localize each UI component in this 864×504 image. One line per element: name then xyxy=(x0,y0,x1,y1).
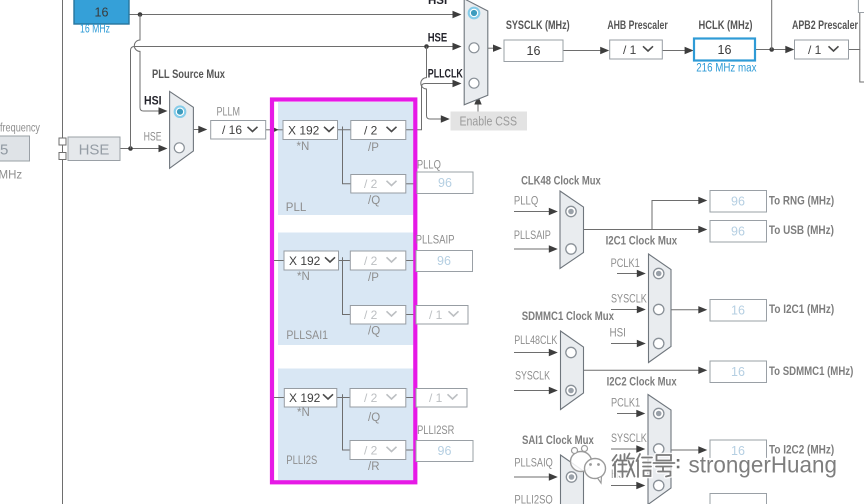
label *N PLLSAI1 xyxy=(297,271,310,283)
svg-text:PLLI2S: PLLI2S xyxy=(286,455,317,467)
svg-text:PCLK1: PCLK1 xyxy=(611,258,640,270)
label HSE at PLL mux xyxy=(144,132,162,144)
label *N PLLI2S xyxy=(297,407,310,419)
value box To SAI1 partial xyxy=(710,494,767,504)
svg-text:16: 16 xyxy=(527,44,541,58)
label PLLSAIP input xyxy=(514,230,551,242)
svg-text:PLLSAIP: PLLSAIP xyxy=(514,230,551,242)
watermark char wei xyxy=(613,454,635,478)
svg-text:96: 96 xyxy=(437,254,451,268)
svg-text:MHz: MHz xyxy=(0,170,22,182)
value box PLLI2SR 96 xyxy=(416,441,473,462)
label AHB Prescaler xyxy=(607,20,668,32)
svg-text:PLLM: PLLM xyxy=(217,107,241,119)
wire SYSCLK into SDMMC1 mux xyxy=(514,387,558,394)
label PLLQ input xyxy=(514,196,538,208)
wire PCLK1 into I2C2 mux xyxy=(617,410,645,417)
svg-text:I2C1 Clock Mux: I2C1 Clock Mux xyxy=(606,236,678,248)
wire I2C2 out to box xyxy=(671,446,707,453)
wire HSE up and right to system mux xyxy=(131,43,462,149)
wire PLLSAI1 /Q out to divider xyxy=(406,314,416,316)
svg-text:APB2 Prescaler: APB2 Prescaler xyxy=(792,20,858,32)
divider PLL /Q dropdown disabled xyxy=(351,175,406,194)
svg-text:SYSCLK: SYSCLK xyxy=(611,433,647,445)
wire HCLK to APB2 with node xyxy=(755,0,794,53)
wire PLLSAI1 /P out to PLLSAIP box xyxy=(406,260,416,262)
label To RNG (MHz) xyxy=(769,196,834,208)
svg-text:96: 96 xyxy=(438,444,452,458)
wire PCLK1 into I2C1 mux xyxy=(617,270,646,277)
svg-text:X 192: X 192 xyxy=(289,254,321,268)
svg-text:AHB Prescaler: AHB Prescaler xyxy=(607,20,668,32)
svg-text:16: 16 xyxy=(731,304,745,318)
svg-text:PLLQ: PLLQ xyxy=(514,196,538,208)
mux SAI1 Clock Mux xyxy=(561,455,584,504)
label MHz xyxy=(0,170,22,182)
label /Q PLL xyxy=(368,195,380,207)
svg-text:strongerHuang: strongerHuang xyxy=(689,452,838,478)
wire I2C1 out to box xyxy=(671,306,707,313)
svg-text:/ 1: / 1 xyxy=(808,43,822,57)
label /P PLL xyxy=(368,142,379,154)
svg-text:/Q: /Q xyxy=(368,195,380,207)
svg-text:/ 2: / 2 xyxy=(364,308,378,322)
wire PLLQ into CLK48 mux xyxy=(514,208,558,215)
value box To RNG 96 xyxy=(710,191,767,213)
mux I2C2 Clock Mux xyxy=(648,395,671,504)
wire PLL /Q out to PLLQ box xyxy=(406,183,417,185)
svg-text:16: 16 xyxy=(95,6,109,20)
label /P PLLSAI1 xyxy=(368,272,379,284)
svg-text:PLL48CLK: PLL48CLK xyxy=(514,335,557,347)
svg-text:I2C2 Clock Mux: I2C2 Clock Mux xyxy=(607,377,677,389)
label SYSCLK (MHz) xyxy=(506,20,570,32)
label frequency xyxy=(0,123,40,135)
left rail wire xyxy=(62,0,64,504)
svg-text:16: 16 xyxy=(718,43,732,57)
label PCLK1 input I2C2 xyxy=(611,398,640,410)
wire HSI into I2C1 mux xyxy=(611,340,646,347)
svg-text:96: 96 xyxy=(731,195,745,209)
svg-text:HSE: HSE xyxy=(79,142,110,159)
svg-text:96: 96 xyxy=(731,225,745,239)
svg-text:/P: /P xyxy=(368,142,379,154)
label SAI1 Clock Mux xyxy=(522,435,594,447)
label PLLSAIQ input xyxy=(514,458,552,470)
label 216 MHz max xyxy=(696,63,757,75)
label PCLK1 input I2C1 xyxy=(611,258,640,270)
divider PLLI2S /R dropdown disabled xyxy=(350,441,406,460)
multiplier PLLI2S xN dropdown X192 xyxy=(284,389,337,408)
label PLLI2S xyxy=(286,455,317,467)
button Enable CSS xyxy=(451,112,528,131)
HSE pin square top xyxy=(59,138,66,145)
PLL block panel xyxy=(278,102,413,215)
HSE pin square bottom xyxy=(59,153,66,160)
divider PLLM dropdown /16 xyxy=(211,121,266,140)
wire PLL source mux out to PLLM xyxy=(193,126,207,133)
svg-text:96: 96 xyxy=(438,176,452,190)
label CLK48 Clock Mux xyxy=(521,176,601,188)
value box SYSCLK 16 xyxy=(504,40,563,62)
label PLLM xyxy=(217,107,241,119)
label APB2 Prescaler xyxy=(792,20,858,32)
divider PLLSAI1 /P dropdown disabled xyxy=(350,251,406,270)
label HCLK (MHz) xyxy=(699,20,753,32)
node HSE branch xyxy=(128,146,133,151)
label SYSCLK input I2C1 xyxy=(611,294,647,306)
wire HSI to system mux xyxy=(129,11,462,18)
svg-text:PLLSAIQ: PLLSAIQ xyxy=(514,458,552,470)
PLLI2S block panel xyxy=(278,369,413,481)
svg-text:216 MHz max: 216 MHz max xyxy=(696,63,757,75)
label To I2C2 (MHz) xyxy=(769,445,834,457)
svg-text:To I2C1 (MHz): To I2C1 (MHz) xyxy=(769,304,834,316)
label PLLCLK xyxy=(428,69,464,81)
wire HSI down to PLL mux with hop xyxy=(134,15,167,115)
svg-text:/ 2: / 2 xyxy=(364,254,378,268)
svg-text:HSE: HSE xyxy=(428,33,448,45)
label To I2C1 (MHz) xyxy=(769,304,834,316)
multiplier PLL xN dropdown X192 xyxy=(283,121,338,140)
label HSE at system mux xyxy=(428,33,448,45)
svg-text:/R: /R xyxy=(368,461,380,473)
svg-text:/ 2: / 2 xyxy=(364,391,378,405)
svg-text:PLLI2SR: PLLI2SR xyxy=(417,425,454,437)
wire SYSCLK into I2C1 mux xyxy=(611,306,646,313)
wire PLL N to dividers junction xyxy=(338,127,351,184)
value box HCLK 16 highlighted xyxy=(694,39,755,61)
label HSI at PLL mux xyxy=(144,96,162,108)
svg-text:/ 1: / 1 xyxy=(429,308,443,322)
mux System Clock Mux xyxy=(464,0,488,105)
label To SDMMC1 (MHz) xyxy=(769,366,853,378)
wire APB2 out to right edge boxes xyxy=(849,13,864,83)
svg-text:HSE: HSE xyxy=(144,132,162,144)
HSI RC oscillator box 16 xyxy=(74,0,129,24)
value box PLLSAIP 96 xyxy=(416,251,473,272)
label 16 MHz xyxy=(80,24,110,36)
svg-text:HCLK (MHz): HCLK (MHz) xyxy=(699,20,753,32)
divider PLLI2S /Q dropdown disabled xyxy=(350,389,406,408)
mux CLK48 Clock Mux xyxy=(560,191,584,269)
wire SYSCLK box to AHB prescaler xyxy=(563,47,609,54)
svg-text:To RNG (MHz): To RNG (MHz) xyxy=(769,196,834,208)
svg-text:HSI: HSI xyxy=(428,0,447,7)
svg-text:PLLSAI1: PLLSAI1 xyxy=(286,330,328,342)
watermark char xin xyxy=(637,454,653,477)
node HSI branch xyxy=(138,12,143,17)
svg-text:*N: *N xyxy=(297,271,310,283)
label HSI at system mux xyxy=(428,0,447,7)
label PLLI2SQ input xyxy=(514,495,552,504)
wire SDMMC1 out to box xyxy=(584,367,708,374)
svg-text:/ 16: / 16 xyxy=(222,123,242,137)
value box To SDMMC1 16 xyxy=(710,361,767,383)
divider PLLSAI1 /Q dropdown disabled xyxy=(350,306,406,325)
svg-text:/ 2: / 2 xyxy=(364,124,378,138)
svg-text:/ 1: / 1 xyxy=(623,43,637,57)
label SDMMC1 Clock Mux xyxy=(522,311,615,323)
wire PLLSAIP into CLK48 mux xyxy=(514,245,558,252)
label PLLSAI1 xyxy=(286,330,328,342)
wire HSI into I2C2 mux xyxy=(611,482,645,489)
mux I2C1 Clock Mux xyxy=(649,254,672,363)
watermark wechat icon xyxy=(571,446,606,484)
svg-text:/Q: /Q xyxy=(368,326,380,338)
wire PLLCLK from /P up to system mux xyxy=(406,80,462,130)
svg-text:X 192: X 192 xyxy=(289,391,321,405)
svg-text:/ 1: / 1 xyxy=(429,391,443,405)
svg-text:SYSCLK: SYSCLK xyxy=(611,294,647,306)
svg-text:SYSCLK: SYSCLK xyxy=(515,371,550,383)
label HSI input I2C1 xyxy=(610,328,626,340)
wire CSS arrow up into mux bottom xyxy=(474,96,481,112)
wire PLLI2S /R out to PLLI2SR box xyxy=(406,449,416,451)
PLLSAI1 block panel xyxy=(278,233,413,346)
label /Q PLLI2S xyxy=(368,412,380,424)
oscillator HSE box xyxy=(68,137,120,161)
wire PLLI2S N to dividers junction xyxy=(337,394,350,450)
svg-text:*N: *N xyxy=(297,407,310,419)
svg-text:frequency: frequency xyxy=(0,123,40,135)
watermark char hao xyxy=(654,455,675,477)
value box To I2C2 16 xyxy=(710,440,767,462)
wire HSE to PLL mux xyxy=(120,145,168,152)
wire CLK48 out to RNG and USB xyxy=(584,197,708,233)
svg-text:PLLI2SQ: PLLI2SQ xyxy=(514,495,552,504)
svg-text:X 192: X 192 xyxy=(288,124,320,138)
svg-text:*N: *N xyxy=(297,141,310,153)
wire PLLM to PLL *N xyxy=(266,127,283,134)
svg-text:/ 2: / 2 xyxy=(364,444,378,458)
box fragment top-right xyxy=(858,0,864,13)
svg-text:Enable CSS: Enable CSS xyxy=(460,114,518,129)
wire PLLI2S input stub xyxy=(270,397,284,399)
svg-text:PLL Source Mux: PLL Source Mux xyxy=(152,69,225,81)
label HSI input I2C2 xyxy=(611,469,627,481)
wire PLLSAI1 input stub xyxy=(270,260,284,262)
multiplier PLLSAI1 xN dropdown X192 xyxy=(284,251,339,270)
divider APB2 prescaler dropdown /1 xyxy=(795,40,849,59)
wire CSS branch down with hop xyxy=(421,47,450,123)
watermark colon xyxy=(676,459,680,469)
label SYSCLK input I2C2 xyxy=(611,433,647,445)
divider AHB prescaler dropdown /1 xyxy=(610,40,663,59)
label PLLI2SR at box xyxy=(417,425,454,437)
watermark text strongerHuang xyxy=(689,452,838,478)
label PLL xyxy=(286,202,307,214)
wire PLL48CLK into SDMMC1 mux xyxy=(514,349,558,356)
PLL highlight frame magenta xyxy=(272,100,415,483)
label /Q PLLSAI1 xyxy=(368,326,380,338)
svg-text:PLLCLK: PLLCLK xyxy=(428,69,464,81)
svg-text:To SDMMC1 (MHz): To SDMMC1 (MHz) xyxy=(769,366,853,378)
divider PLL /P dropdown xyxy=(351,121,406,140)
svg-text:5: 5 xyxy=(0,142,8,159)
svg-text:16 MHz: 16 MHz xyxy=(80,24,110,36)
wire PLLSAIQ into SAI1 mux xyxy=(514,473,558,480)
svg-text:HSI: HSI xyxy=(144,96,162,108)
label PLLSAIP at box xyxy=(416,235,455,247)
label PLL48CLK input xyxy=(514,335,557,347)
label I2C2 Clock Mux xyxy=(607,377,677,389)
svg-text:/P: /P xyxy=(368,272,379,284)
wire system mux output to SYSCLK box xyxy=(488,45,502,52)
svg-text:/Q: /Q xyxy=(368,412,380,424)
svg-text:PCLK1: PCLK1 xyxy=(611,398,640,410)
divider PLLSAI1Q output /1 dropdown disabled xyxy=(416,306,468,325)
svg-text:16: 16 xyxy=(731,365,745,379)
label I2C1 Clock Mux xyxy=(606,236,678,248)
label *N PLL xyxy=(297,141,310,153)
value box PLLQ 96 xyxy=(417,172,473,194)
divider PLLI2SQ output /1 dropdown disabled xyxy=(416,389,467,408)
value box To USB 96 xyxy=(710,221,767,243)
svg-text:SYSCLK (MHz): SYSCLK (MHz) xyxy=(506,20,570,32)
input frequency box 5 xyxy=(0,136,30,161)
wire AHB to HCLK xyxy=(662,47,693,54)
mux PLL Source Mux xyxy=(170,91,194,168)
svg-text:HSI: HSI xyxy=(610,328,626,340)
label SYSCLK input SDMMC1 xyxy=(515,371,550,383)
value box To I2C1 16 xyxy=(710,300,767,322)
label /R PLLI2S xyxy=(368,461,380,473)
svg-text:To USB (MHz): To USB (MHz) xyxy=(769,225,834,237)
label PLLQ at box xyxy=(417,160,441,172)
label To USB (MHz) xyxy=(769,225,834,237)
wire PLLSAI1 N to dividers junction xyxy=(338,257,350,314)
wire SYSCLK into I2C2 mux xyxy=(611,445,645,452)
svg-text:PLL: PLL xyxy=(286,202,307,214)
svg-text:PLLQ: PLLQ xyxy=(417,160,441,172)
svg-text:PLLSAIP: PLLSAIP xyxy=(416,235,455,247)
label PLL Source Mux xyxy=(152,69,225,81)
node CSS branch xyxy=(424,44,429,49)
svg-text:CLK48 Clock Mux: CLK48 Clock Mux xyxy=(521,176,601,188)
mux SDMMC1 Clock Mux xyxy=(561,331,584,410)
svg-text:/ 2: / 2 xyxy=(364,177,378,191)
svg-text:SDMMC1 Clock Mux: SDMMC1 Clock Mux xyxy=(522,311,615,323)
wire PLLI2S /Q out to divider xyxy=(406,397,416,399)
